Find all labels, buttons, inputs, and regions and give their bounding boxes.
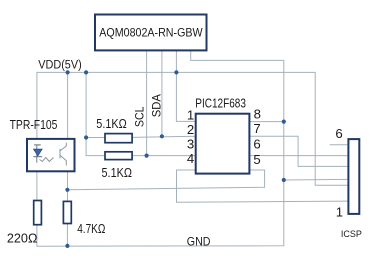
svg-text:4.7KΩ: 4.7KΩ — [77, 222, 105, 236]
node VDD-AQM pin1 — [174, 70, 178, 74]
node SDA-pin2 — [160, 134, 164, 138]
svg-text:TPR-F105: TPR-F105 — [10, 117, 58, 132]
wire VDD rail from TPR top-left up, across, down right side to ICSP pin2 — [37, 72, 348, 185]
svg-text:AQM0802A-RN-GBW: AQM0802A-RN-GBW — [99, 26, 203, 40]
svg-text:1: 1 — [187, 107, 194, 122]
wire AQM pin4 down, across right, down to GND rail, across to 220 ohm bottom — [37, 50, 284, 246]
svg-text:GND: GND — [187, 235, 211, 249]
wire PIC pin6 to ICSP pin5 — [249, 155, 347, 157]
svg-text:4: 4 — [187, 151, 194, 166]
wire ICSP pin6 stub — [330, 144, 348, 146]
svg-text:VDD(5V): VDD(5V) — [38, 58, 81, 72]
svg-text:ICSP: ICSP — [341, 228, 362, 239]
wire 4.7K bottom to GND rail — [66, 224, 68, 246]
svg-text:7: 7 — [253, 121, 260, 136]
wire PIC pin4 to ICSP pin1 — [177, 170, 348, 202]
node A emitter-4.7K-pin5 — [65, 188, 69, 192]
node 4.7K-GND rail — [65, 244, 69, 248]
svg-text:220Ω: 220Ω — [7, 232, 38, 246]
wire TPR collector to VDD rail — [67, 72, 69, 138]
node pin8-GND wire — [282, 120, 286, 124]
wire pullup feed from VDD rail to resistors — [86, 72, 105, 155]
wire PIC pin7 to ICSP pin4 — [249, 136, 347, 166]
wire SCL vertical from AQM — [146, 50, 148, 155]
svg-text:3: 3 — [187, 136, 194, 151]
resistor R1 5.1K upper — [105, 134, 132, 143]
wire PIC pin5 to node A — [68, 170, 265, 190]
svg-text:1: 1 — [336, 205, 343, 220]
phototransistor inside TPR — [60, 143, 66, 166]
svg-text:5.1KΩ: 5.1KΩ — [102, 166, 133, 180]
node GND-ICSP pin3 — [282, 178, 286, 182]
wire TPR emitter to node A — [67, 171, 69, 201]
node VDD-TPR collector — [66, 70, 70, 74]
svg-text:PIC12F683: PIC12F683 — [195, 96, 246, 111]
svg-text:6: 6 — [253, 136, 260, 151]
svg-text:5: 5 — [253, 152, 260, 167]
LCD module U2 AQM0802A-RN-GBW — [95, 15, 207, 51]
svg-text:2: 2 — [187, 122, 194, 137]
wire TPR cathode to 220 ohm — [36, 171, 38, 200]
connector J1 ICSP — [348, 139, 359, 214]
wire SDA vertical from AQM — [161, 50, 163, 136]
photoreflector U3 TPR-F105 — [27, 139, 75, 171]
wire PIC pin3 row — [132, 155, 196, 157]
node VDD-pullups — [84, 70, 88, 74]
wire PIC pin2 row — [132, 136, 196, 137]
MCU U1 PIC12F683 — [196, 114, 250, 174]
resistor R4 4.7K — [63, 201, 71, 223]
svg-text:SCL: SCL — [132, 106, 146, 127]
LED inside TPR — [33, 145, 42, 163]
svg-text:SDA: SDA — [149, 93, 163, 117]
svg-text:8: 8 — [254, 107, 261, 122]
wire AQM pin1 to PIC pin1 — [176, 50, 195, 121]
svg-text:6: 6 — [335, 126, 342, 141]
wire resistor R2 left feed — [86, 137, 105, 139]
node R2-feed junction — [84, 135, 88, 139]
light coupling squiggle — [40, 158, 54, 162]
wire GND node to ICSP pin3 — [284, 178, 348, 181]
node SCL-pin3 — [145, 154, 149, 158]
resistor R3 220 ohm — [34, 201, 42, 225]
svg-text:5.1KΩ: 5.1KΩ — [96, 117, 127, 131]
wire PIC pin8 row — [249, 121, 283, 123]
resistor R2 5.1K lower — [105, 152, 132, 160]
